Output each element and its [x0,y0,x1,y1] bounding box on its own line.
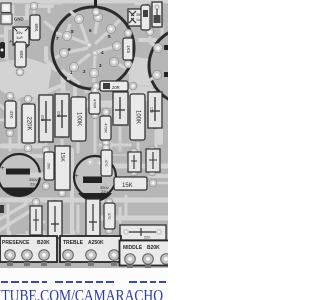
svg-text:YOUTUBE.COM/CAMARACHO: YOUTUBE.COM/CAMARACHO [0,286,163,300]
